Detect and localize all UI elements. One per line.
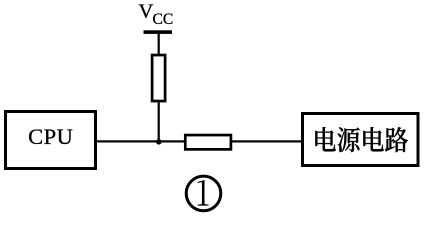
svg-text:V: V	[139, 0, 154, 22]
svg-text:CC: CC	[153, 11, 174, 28]
svg-text:CPU: CPU	[28, 124, 73, 149]
